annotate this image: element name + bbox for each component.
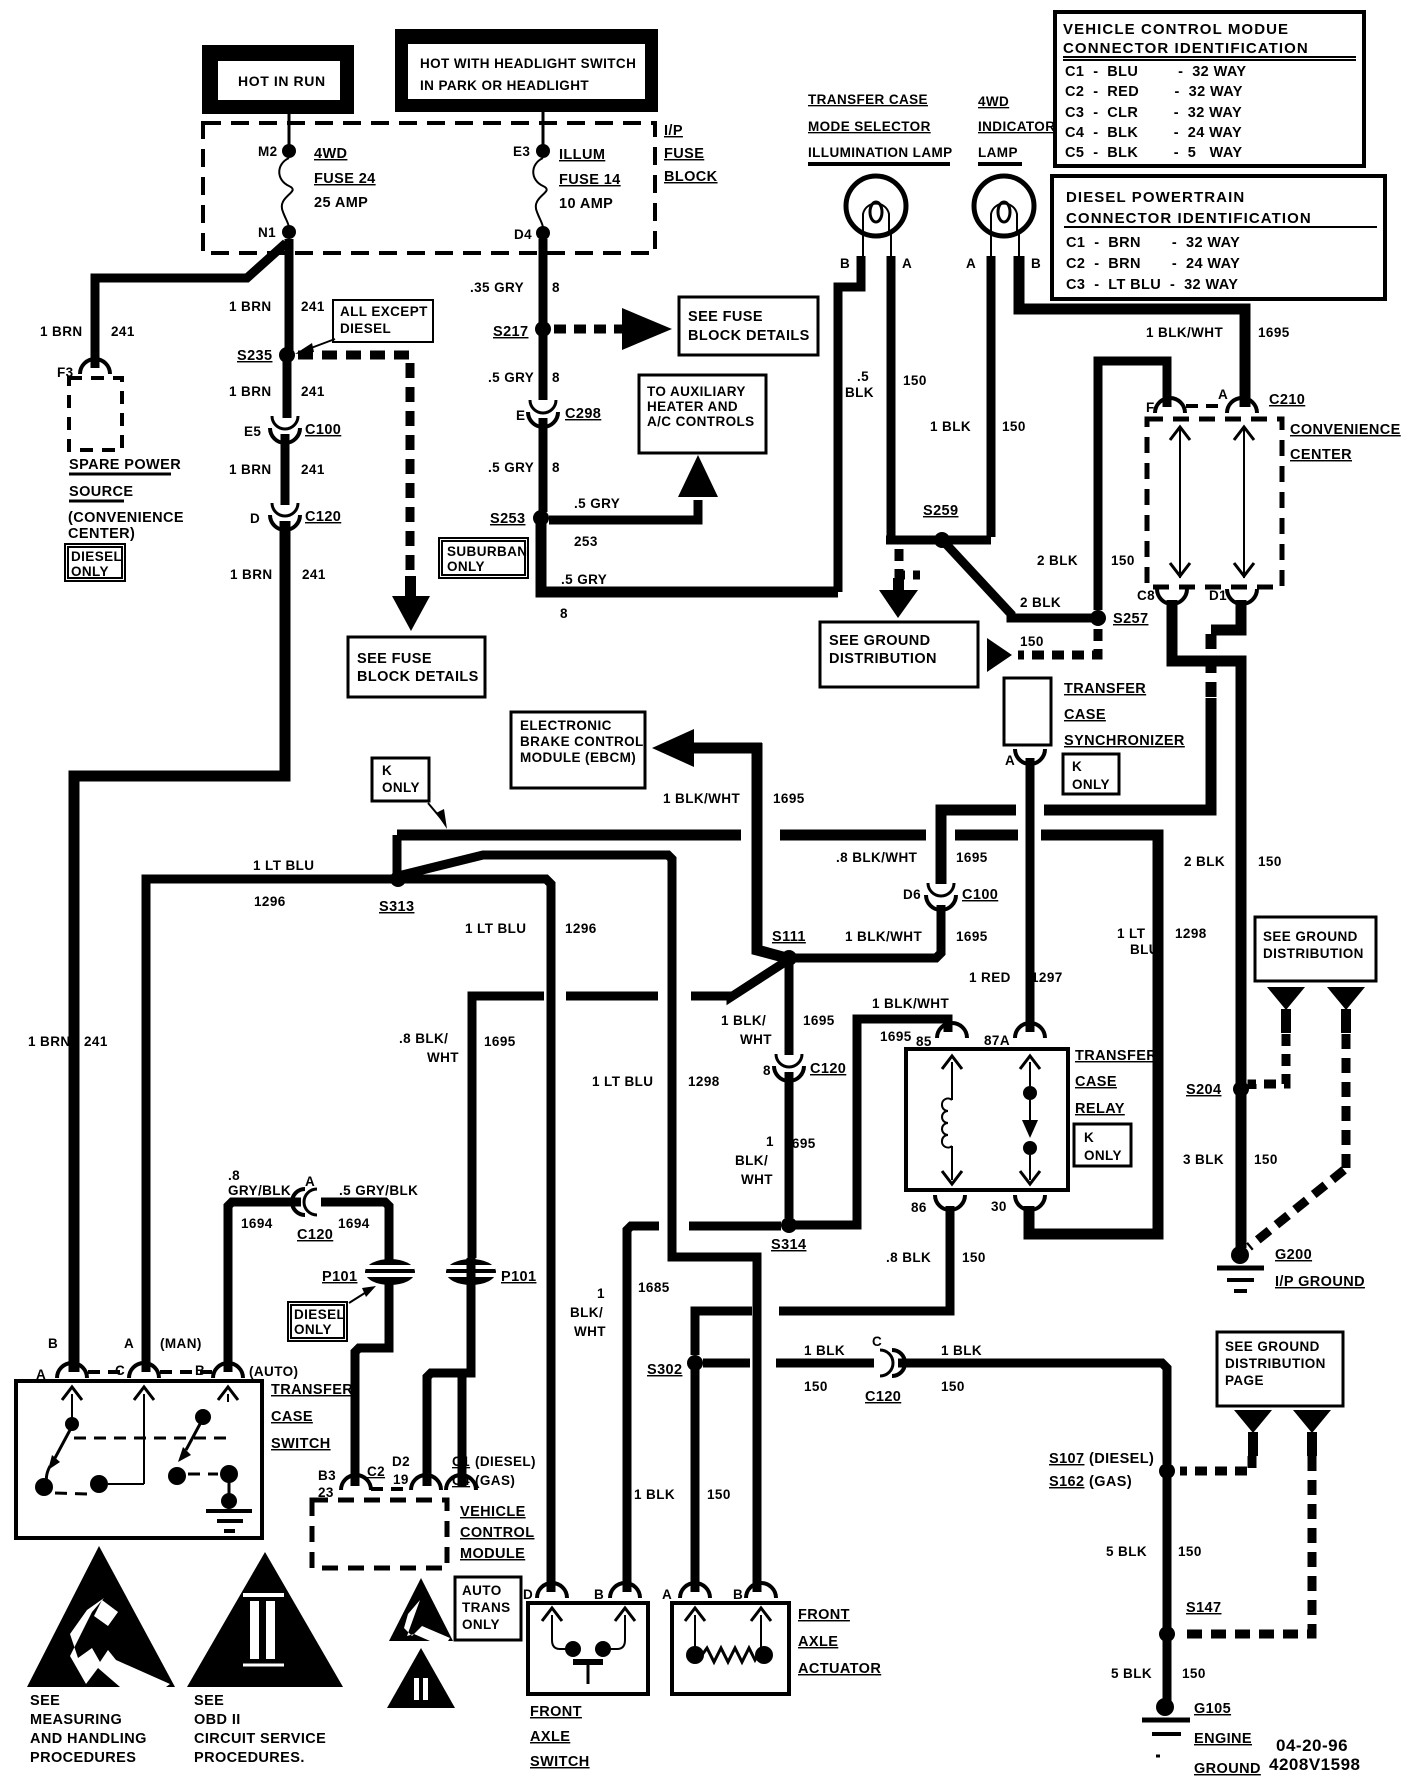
svg-text:ALL EXCEPT: ALL EXCEPT xyxy=(340,304,428,319)
svg-text:ONLY: ONLY xyxy=(1084,1148,1122,1163)
off-page arrow to fuse block details xyxy=(622,308,672,350)
svg-text:S314: S314 xyxy=(771,1237,806,1253)
svg-text:WHT: WHT xyxy=(741,1172,773,1187)
svg-text:HOT IN RUN: HOT IN RUN xyxy=(238,73,326,89)
svg-text:S313: S313 xyxy=(379,899,414,915)
svg-text:DIESEL POWERTRAIN: DIESEL POWERTRAIN xyxy=(1066,189,1245,206)
svg-text:ELECTRONIC: ELECTRONIC xyxy=(520,718,612,733)
svg-text:C1 - BLU - 32 WAY: C1 - BLU - 32 WAY xyxy=(1065,64,1246,80)
svg-text:E3: E3 xyxy=(513,144,530,159)
connector C100 pin D6 xyxy=(903,883,998,910)
dashed wire to S204 xyxy=(1252,1034,1286,1089)
wire D1 jog xyxy=(1211,600,1241,630)
wire D1 drop solid to horizontal 810 xyxy=(1044,698,1211,810)
svg-text:BLK/: BLK/ xyxy=(735,1153,768,1168)
label 2 BLK 150 (conv center) xyxy=(1037,553,1135,568)
box SEE GROUND DISTRIBUTION PAGE xyxy=(1217,1332,1343,1406)
label B3 23 xyxy=(318,1468,336,1500)
svg-text:BLU: BLU xyxy=(1130,942,1159,957)
label I/P FUSE BLOCK xyxy=(664,123,718,185)
wire from HOT IN RUN to M2 xyxy=(288,114,291,150)
svg-text:K: K xyxy=(382,763,392,778)
wire synchronizer to relay 87A xyxy=(1026,758,1035,1032)
svg-text:INDICATOR: INDICATOR xyxy=(978,119,1055,134)
svg-text:S253: S253 xyxy=(490,511,525,527)
connector pin 86 xyxy=(911,1195,965,1215)
pin labels B A (MAN) (AUTO) xyxy=(48,1336,298,1379)
wire K-only 1695 long horizontal xyxy=(397,830,741,841)
svg-text:K: K xyxy=(1084,1130,1094,1145)
wire 1298 jog to actuator B xyxy=(672,1247,757,1592)
internal link F to C8 xyxy=(1170,427,1190,578)
svg-text:C100: C100 xyxy=(962,887,998,903)
ground G200 xyxy=(1217,1246,1264,1291)
label C1 (DIESEL) C4 (GAS) xyxy=(452,1454,536,1488)
off-page ground arrow left (page) xyxy=(1234,1410,1272,1456)
lamp mode selector illumination xyxy=(846,176,906,258)
wire S235 to C100 xyxy=(283,355,292,418)
svg-text:.5 GRY: .5 GRY xyxy=(488,370,534,385)
connector pin C (switch) xyxy=(115,1363,159,1378)
wire dashed S257 to arrow xyxy=(1018,629,1098,655)
svg-text:30: 30 xyxy=(991,1199,1007,1214)
svg-text:A: A xyxy=(966,256,976,271)
svg-text:C120: C120 xyxy=(297,1227,333,1243)
svg-text:S111: S111 xyxy=(772,929,806,945)
svg-text:A: A xyxy=(124,1336,134,1351)
svg-text:3 BLK: 3 BLK xyxy=(1183,1152,1224,1167)
wire P101 to VCM pins xyxy=(427,1258,471,1486)
svg-text:1298: 1298 xyxy=(688,1074,720,1089)
label .8 GRY/BLK 1694 xyxy=(228,1168,291,1231)
svg-text:G105: G105 xyxy=(1194,1701,1231,1717)
off-page arrow to ground distribution xyxy=(879,578,918,618)
svg-text:CONNECTOR IDENTIFICATION: CONNECTOR IDENTIFICATION xyxy=(1063,40,1309,57)
splice S111 xyxy=(772,929,806,966)
svg-text:.8 BLK/WHT: .8 BLK/WHT xyxy=(836,850,918,865)
svg-text:OBD II: OBD II xyxy=(194,1712,241,1728)
svg-text:AUTO: AUTO xyxy=(462,1583,502,1598)
label .8 BLK 150 xyxy=(886,1250,986,1265)
svg-text:1 BRN: 1 BRN xyxy=(229,462,272,477)
connector pin C1/C4 xyxy=(446,1475,476,1490)
svg-text:1298: 1298 xyxy=(1175,926,1207,941)
connector pin B3 xyxy=(341,1475,371,1490)
svg-text:.5 GRY: .5 GRY xyxy=(574,496,620,511)
splice S257 xyxy=(1090,610,1148,627)
svg-text:ACTUATOR: ACTUATOR xyxy=(798,1661,881,1677)
svg-text:(DIESEL): (DIESEL) xyxy=(475,1454,536,1469)
spare power source dashed box xyxy=(69,378,122,450)
wire EBCM to S111 xyxy=(757,743,783,957)
label 1 BLK/WHT 1695 (EBCM) xyxy=(663,791,805,806)
svg-text:1 BRN: 1 BRN xyxy=(28,1034,71,1049)
svg-text:AND HANDLING: AND HANDLING xyxy=(30,1731,147,1747)
callout arrow K only xyxy=(428,803,447,829)
svg-text:SWITCH: SWITCH xyxy=(271,1436,331,1452)
label C2 D2 19 xyxy=(367,1454,410,1487)
wire S302 down to actuator A xyxy=(691,1369,700,1592)
svg-text:DIESEL: DIESEL xyxy=(294,1307,345,1322)
svg-text:D4: D4 xyxy=(514,227,532,242)
label 1 BLK 150 xyxy=(930,419,1026,434)
svg-text:253: 253 xyxy=(574,534,598,549)
svg-text:A: A xyxy=(662,1587,672,1602)
svg-text:1 LT BLU: 1 LT BLU xyxy=(253,858,314,873)
svg-text:DISTRIBUTION: DISTRIBUTION xyxy=(1263,946,1364,961)
svg-text:D: D xyxy=(250,511,260,526)
svg-text:SEE GROUND: SEE GROUND xyxy=(1263,929,1358,944)
box TO AUXILIARY HEATER AND A/C CONTROLS xyxy=(639,375,766,453)
svg-text:C100: C100 xyxy=(305,422,341,438)
svg-text:150: 150 xyxy=(1254,1152,1278,1167)
wire dashed S259 to ground arrow xyxy=(899,549,920,575)
svg-text:TO AUXILIARY: TO AUXILIARY xyxy=(647,384,746,399)
svg-text:F: F xyxy=(1146,400,1155,415)
svg-text:C120: C120 xyxy=(865,1389,901,1405)
svg-text:WHT: WHT xyxy=(427,1050,459,1065)
wire N1 branch to F3 xyxy=(95,243,286,368)
wire S147 to G105 xyxy=(1163,1640,1172,1702)
svg-text:DIESEL: DIESEL xyxy=(340,321,391,336)
svg-text:C3 - LT BLU - 32 WAY: C3 - LT BLU - 32 WAY xyxy=(1066,277,1238,293)
label 4WD indicator lamp xyxy=(978,94,1055,164)
svg-text:1695: 1695 xyxy=(956,929,988,944)
svg-text:VEHICLE: VEHICLE xyxy=(460,1504,526,1520)
svg-text:ONLY: ONLY xyxy=(71,564,109,579)
label 4WD FUSE 24 25 AMP xyxy=(314,146,376,211)
connector C120 pin 8 xyxy=(763,1054,846,1081)
switch pole A internals xyxy=(35,1387,108,1496)
connector pin 30 xyxy=(991,1195,1045,1214)
wire dashed S217 to arrow xyxy=(554,325,625,334)
svg-text:CASE: CASE xyxy=(1064,707,1106,723)
dashed wire to S107 xyxy=(1180,1456,1252,1471)
dashed wire arrow right to S147 xyxy=(1186,1456,1312,1634)
node N1 xyxy=(258,225,296,240)
svg-text:CONTROL: CONTROL xyxy=(460,1525,535,1541)
svg-text:S257: S257 xyxy=(1113,611,1148,627)
svg-text:SEE FUSE: SEE FUSE xyxy=(688,309,763,325)
wire dashed S235 to fuse details arrow xyxy=(298,355,410,572)
wire S314 right up to relay 85 xyxy=(795,1019,948,1225)
wire C210 F to S257 xyxy=(1098,361,1167,610)
label TRANSFER CASE RELAY xyxy=(1075,1048,1157,1117)
label SEE MEASURING AND HANDLING PROCEDURES xyxy=(30,1693,147,1766)
svg-text:P101: P101 xyxy=(322,1269,357,1285)
svg-text:1 BLK: 1 BLK xyxy=(634,1487,675,1502)
callout arrow to S235 xyxy=(295,339,335,354)
label 1 BLK 150 (actuator A) xyxy=(634,1487,731,1502)
svg-text:1 LT: 1 LT xyxy=(1117,926,1146,941)
power label box HOT IN RUN xyxy=(202,45,354,114)
wire N1 to S235 and down xyxy=(285,239,294,350)
node E3 xyxy=(513,144,550,159)
label .5 BLK 150 xyxy=(845,369,927,400)
svg-text:DIESEL: DIESEL xyxy=(71,549,122,564)
svg-text:SWITCH: SWITCH xyxy=(530,1754,590,1770)
svg-text:.8: .8 xyxy=(228,1168,240,1183)
dashes between switch pins xyxy=(88,1370,212,1374)
svg-text:FUSE 14: FUSE 14 xyxy=(559,172,621,188)
svg-text:.5 GRY/BLK: .5 GRY/BLK xyxy=(339,1183,418,1198)
off-page arrow (ground distribution feed) xyxy=(987,638,1012,672)
label .5 GRY 8 (bottom) xyxy=(560,572,607,621)
label TRANSFER CASE SYNCHRONIZER xyxy=(1064,681,1185,749)
label 1 BLK/WHT 1685 xyxy=(570,1280,670,1339)
svg-text:5 BLK: 5 BLK xyxy=(1106,1544,1147,1559)
connector pin A (synchronizer) xyxy=(1005,749,1045,768)
connector pin 87A xyxy=(984,1023,1045,1048)
label 1 BRN 241 xyxy=(229,384,325,399)
box DIESEL ONLY (P101) xyxy=(288,1302,347,1341)
splice S259 xyxy=(886,503,991,548)
svg-text:HEATER AND: HEATER AND xyxy=(647,399,738,414)
svg-text:S107: S107 xyxy=(1049,1451,1084,1467)
dashed link between C210 pins xyxy=(1186,404,1226,408)
svg-text:C1 - BRN - 32 WAY: C1 - BRN - 32 WAY xyxy=(1066,235,1240,251)
box DIESEL ONLY (spare power) xyxy=(65,544,125,581)
label .5 GRY 253 xyxy=(574,496,620,549)
label .5 GRY 8 xyxy=(488,370,560,385)
svg-text:A: A xyxy=(305,1174,315,1189)
label 2 BLK 150 xyxy=(1184,854,1282,869)
wire horizontal 810 left segment xyxy=(941,810,1016,884)
bulkhead grommet P101 (diesel) xyxy=(322,1259,415,1285)
convenience center dashed box xyxy=(1147,419,1282,587)
svg-text:SEE GROUND: SEE GROUND xyxy=(829,633,931,649)
box ALL EXCEPT DIESEL xyxy=(333,300,433,342)
svg-text:FRONT: FRONT xyxy=(530,1704,582,1720)
svg-text:S162: S162 xyxy=(1049,1474,1084,1490)
svg-text:SPARE POWER: SPARE POWER xyxy=(69,457,181,473)
svg-text:SEE: SEE xyxy=(194,1693,224,1709)
svg-text:241: 241 xyxy=(301,299,325,314)
label 1 BLK 150 (left of C120) xyxy=(804,1343,845,1394)
svg-text:(AUTO): (AUTO) xyxy=(249,1364,298,1379)
label .8 BLK/WHT 1695 xyxy=(836,850,988,865)
svg-text:C120: C120 xyxy=(810,1061,846,1077)
off-page arrow to A/C controls xyxy=(678,455,718,497)
svg-text:241: 241 xyxy=(301,384,325,399)
svg-text:CASE: CASE xyxy=(1075,1074,1117,1090)
svg-text:A: A xyxy=(1005,753,1015,768)
svg-text:25 AMP: 25 AMP xyxy=(314,195,368,211)
power label box HOT WITH HEADLIGHT SWITCH xyxy=(395,29,658,112)
svg-text:C4 - BLK - 24 WAY: C4 - BLK - 24 WAY xyxy=(1065,125,1242,141)
connector pin B (faa) xyxy=(733,1583,776,1602)
label 1 BLK/WHT 1695 (relay 85) xyxy=(872,996,949,1044)
svg-text:ILLUMINATION LAMP: ILLUMINATION LAMP xyxy=(808,145,953,160)
svg-text:10 AMP: 10 AMP xyxy=(559,196,613,212)
OBD II triangle xyxy=(187,1552,343,1687)
label 1 LT BLU 1298 (mid) xyxy=(592,1074,720,1089)
svg-text:PAGE: PAGE xyxy=(1225,1373,1264,1388)
box SEE FUSE BLOCK DETAILS (lower) xyxy=(348,637,485,697)
wire S313 diagonal 1298 xyxy=(402,855,672,1252)
connector pin C2/D2 xyxy=(411,1475,441,1490)
label FRONT AXLE SWITCH xyxy=(530,1704,590,1770)
svg-text:C5 - BLK - 5 WAY: C5 - BLK - 5 WAY xyxy=(1065,145,1242,161)
svg-text:LAMP: LAMP xyxy=(978,145,1018,160)
svg-text:HOT WITH HEADLIGHT SWITCH: HOT WITH HEADLIGHT SWITCH xyxy=(420,56,636,71)
svg-text:S259: S259 xyxy=(923,503,958,519)
svg-text:1 RED: 1 RED xyxy=(969,970,1011,985)
svg-text:(CONVENIENCE: (CONVENIENCE xyxy=(68,510,184,526)
connector C210 pin F xyxy=(1146,398,1185,415)
connector pin B (fas) xyxy=(594,1583,640,1602)
svg-text:C3 - CLR - 32 WAY: C3 - CLR - 32 WAY xyxy=(1065,105,1242,121)
label 1 BRN 241 (tall run) xyxy=(28,1034,108,1049)
svg-text:N1: N1 xyxy=(258,225,276,240)
box SUBURBAN ONLY xyxy=(439,538,528,578)
callout arrow P101 xyxy=(349,1286,376,1303)
svg-text:C2: C2 xyxy=(367,1464,385,1479)
svg-text:TRANSFER: TRANSFER xyxy=(1075,1048,1157,1064)
svg-text:SYNCHRONIZER: SYNCHRONIZER xyxy=(1064,733,1185,749)
off-page ground arrow left xyxy=(1267,987,1305,1033)
svg-text:MEASURING: MEASURING xyxy=(30,1712,122,1728)
svg-text:GROUND: GROUND xyxy=(1194,1761,1261,1777)
svg-text:1 BRN: 1 BRN xyxy=(230,567,273,582)
svg-text:MODULE: MODULE xyxy=(460,1546,525,1562)
fuse F24 symbol xyxy=(279,158,292,228)
svg-text:1: 1 xyxy=(766,1134,774,1149)
svg-text:1 BLK/WHT: 1 BLK/WHT xyxy=(845,929,922,944)
svg-text:C210: C210 xyxy=(1269,392,1305,408)
svg-text:(GAS): (GAS) xyxy=(475,1473,515,1488)
svg-text:TRANSFER: TRANSFER xyxy=(271,1382,353,1398)
label CONVENIENCE CENTER xyxy=(1290,422,1401,463)
label TRANSFER CASE SWITCH xyxy=(271,1382,353,1452)
transfer case relay box xyxy=(906,1049,1068,1190)
relay coil xyxy=(942,1056,962,1184)
wire S314 left to front axle switch B xyxy=(627,1226,781,1592)
svg-text:ONLY: ONLY xyxy=(382,780,420,795)
label FRONT AXLE ACTUATOR xyxy=(798,1607,881,1677)
svg-text:(DIESEL): (DIESEL) xyxy=(1089,1451,1154,1467)
svg-text:1296: 1296 xyxy=(254,894,286,909)
wire S253 to aux heater arrow xyxy=(549,500,698,520)
ground G105 xyxy=(1142,1698,1190,1756)
wire S204 to G200 (3 BLK 150) xyxy=(1236,1089,1247,1248)
svg-text:1: 1 xyxy=(597,1286,605,1301)
svg-text:FUSE 24: FUSE 24 xyxy=(314,171,376,187)
svg-text:PROCEDURES.: PROCEDURES. xyxy=(194,1750,305,1766)
switch pole B internals xyxy=(168,1387,238,1485)
svg-text:AXLE: AXLE xyxy=(530,1729,570,1745)
splice S314 xyxy=(771,1217,806,1253)
svg-text:S235: S235 xyxy=(237,348,272,364)
small ESD triangle xyxy=(389,1578,453,1641)
connector C120 pin C xyxy=(865,1334,905,1405)
wire C8 down (2 BLK 150) xyxy=(1172,600,1241,1084)
svg-text:G200: G200 xyxy=(1275,1247,1312,1263)
connector pin D1 xyxy=(1209,588,1257,604)
svg-text:8: 8 xyxy=(552,280,560,295)
svg-text:1695: 1695 xyxy=(880,1029,912,1044)
svg-text:GRY/BLK: GRY/BLK xyxy=(228,1183,291,1198)
label G105 ENGINE GROUND xyxy=(1194,1701,1261,1777)
svg-text:150: 150 xyxy=(941,1379,965,1394)
svg-text:1 BLK/WHT: 1 BLK/WHT xyxy=(1146,325,1223,340)
wire lamp2 A lead xyxy=(987,256,996,537)
dashes between VCM pins xyxy=(371,1487,410,1491)
svg-text:85: 85 xyxy=(916,1034,932,1049)
svg-text:VEHICLE CONTROL MODUE: VEHICLE CONTROL MODUE xyxy=(1063,21,1289,38)
svg-text:1694: 1694 xyxy=(241,1216,273,1231)
svg-text:WHT: WHT xyxy=(740,1032,772,1047)
splice S302 xyxy=(647,1355,703,1378)
svg-text:1 BRN: 1 BRN xyxy=(229,384,272,399)
wire C298 to S253 xyxy=(539,418,548,512)
svg-text:BLK/: BLK/ xyxy=(570,1305,603,1320)
connector pin D (fas) xyxy=(523,1583,567,1602)
wire S302 right to C120 C xyxy=(703,1359,874,1368)
transfer case synchronizer box xyxy=(1004,678,1051,745)
wire S313 horizontal 1296 xyxy=(146,879,551,1592)
svg-text:150: 150 xyxy=(1111,553,1135,568)
splice S313 xyxy=(379,835,414,915)
label VEHICLE CONTROL MODULE xyxy=(460,1504,535,1562)
label 1 BLK/WHT 1695 (S111 right) xyxy=(845,929,988,944)
wire C120-A left to switch AUTO xyxy=(228,1202,301,1372)
svg-text:CENTER): CENTER) xyxy=(68,526,135,542)
svg-text:8: 8 xyxy=(763,1063,771,1078)
wire C120-A right to P101 and B3 xyxy=(321,1202,389,1486)
label 1 LT BLU 1296 (left) xyxy=(253,858,314,909)
svg-text:1 BLK: 1 BLK xyxy=(930,419,971,434)
svg-text:D1: D1 xyxy=(1209,588,1227,603)
svg-text:B: B xyxy=(1031,256,1041,271)
node D4 xyxy=(514,226,550,242)
svg-text:RELAY: RELAY xyxy=(1075,1101,1125,1117)
svg-text:A: A xyxy=(902,256,912,271)
I/P fuse block dashed box xyxy=(203,123,655,253)
svg-text:2 BLK: 2 BLK xyxy=(1020,595,1061,610)
svg-text:FRONT: FRONT xyxy=(798,1607,850,1623)
svg-text:1 BLK: 1 BLK xyxy=(804,1343,845,1358)
switch pole C internals xyxy=(108,1387,154,1484)
connector C120 pin D xyxy=(250,503,341,530)
svg-text:.5 GRY: .5 GRY xyxy=(488,460,534,475)
svg-text:1 BRN: 1 BRN xyxy=(229,299,272,314)
wire C120 down to BRN run xyxy=(74,521,285,1372)
wire 1296 left drop to switch C xyxy=(142,879,151,1372)
svg-text:1694: 1694 xyxy=(338,1216,370,1231)
relay switch contact xyxy=(1020,1056,1040,1184)
transfer case switch box xyxy=(16,1381,262,1538)
svg-text:86: 86 xyxy=(911,1200,927,1215)
svg-text:87A: 87A xyxy=(984,1033,1010,1048)
svg-text:WHT: WHT xyxy=(574,1324,606,1339)
svg-text:.5: .5 xyxy=(857,369,869,384)
label 1 LT BLU 1296 (mid) xyxy=(465,921,597,936)
label ILLUM FUSE 14 10 AMP xyxy=(559,147,621,212)
svg-text:B: B xyxy=(840,256,850,271)
pin B lamp2 xyxy=(1031,256,1041,271)
label 1 BLK/WHT 1695 (C120-8 above) xyxy=(721,1013,835,1047)
svg-text:SOURCE: SOURCE xyxy=(69,484,133,500)
off-page ground arrow right xyxy=(1327,987,1365,1033)
plate code 04-20-96 4208V1598 xyxy=(1269,1736,1360,1774)
splice S253 xyxy=(490,510,549,527)
ESD warning triangle xyxy=(27,1546,175,1687)
svg-text:A/C CONTROLS: A/C CONTROLS xyxy=(647,414,755,429)
svg-text:1 LT BLU: 1 LT BLU xyxy=(465,921,526,936)
svg-text:MODULE (EBCM): MODULE (EBCM) xyxy=(520,750,636,765)
wire from HEADLIGHT box to E3 xyxy=(542,112,545,150)
